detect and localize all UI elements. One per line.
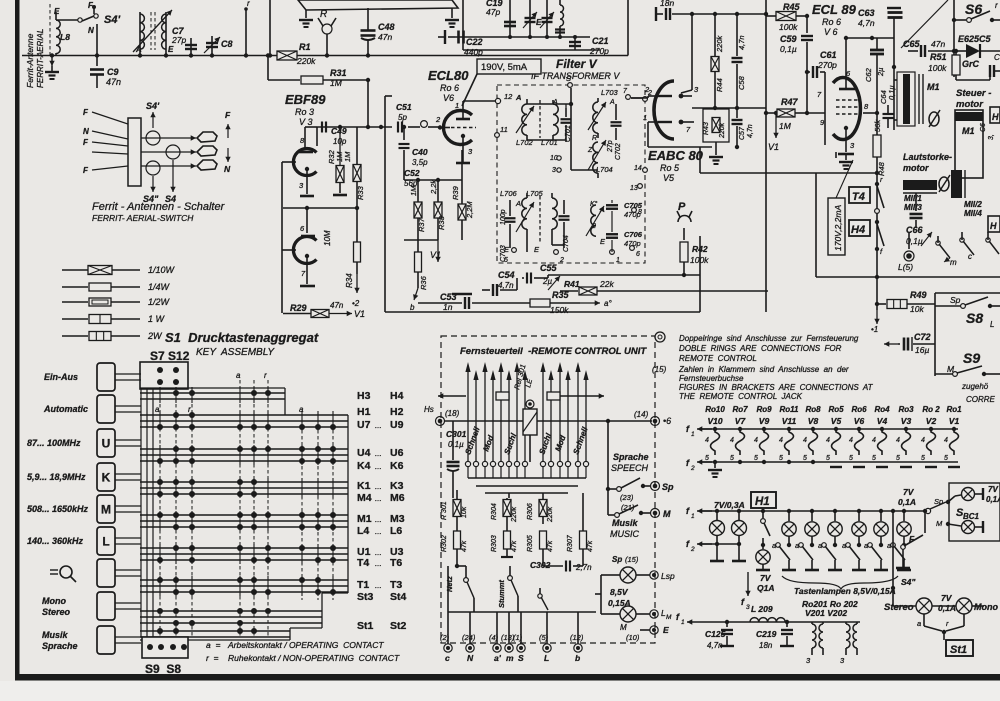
svg-text:A: A bbox=[135, 45, 142, 54]
svg-text:F: F bbox=[225, 110, 231, 120]
svg-text:IF TRANSFORMER V: IF TRANSFORMER V bbox=[531, 71, 620, 81]
contact pair Ro9 V9 bbox=[754, 405, 772, 462]
junction dots on main bus bbox=[50, 53, 54, 57]
svg-text:a =: a = bbox=[206, 640, 220, 650]
grid terminal circle bbox=[421, 121, 428, 128]
filter pin S bbox=[566, 74, 572, 87]
svg-text:T3: T3 bbox=[390, 579, 402, 591]
svg-text:Tastenlampen 8,5V/0,15A: Tastenlampen 8,5V/0,15A bbox=[794, 586, 896, 596]
svg-text:N: N bbox=[467, 653, 474, 663]
svg-text:508... 1650kHz: 508... 1650kHz bbox=[27, 504, 89, 514]
svg-text:220k: 220k bbox=[296, 56, 316, 66]
matrix dots bbox=[157, 390, 336, 634]
svg-text:MII/2: MII/2 bbox=[964, 200, 982, 209]
coil L703 bbox=[588, 88, 619, 138]
svg-text:47p: 47p bbox=[486, 7, 500, 17]
svg-text:4: 4 bbox=[705, 437, 709, 444]
capacitor C301 0.1u bbox=[446, 421, 467, 490]
svg-text:M4: M4 bbox=[357, 492, 372, 504]
resistor R29 with output V1 bbox=[283, 301, 365, 319]
svg-text:4,7n: 4,7n bbox=[858, 18, 875, 28]
svg-text:R302: R302 bbox=[441, 535, 448, 552]
svg-text:10p: 10p bbox=[333, 137, 347, 146]
svg-text:2: 2 bbox=[559, 257, 564, 264]
svg-text:N: N bbox=[88, 26, 94, 35]
svg-text:M3: M3 bbox=[390, 513, 405, 525]
svg-text:Ro3: Ro3 bbox=[898, 405, 914, 414]
svg-text:(12): (12) bbox=[570, 633, 584, 642]
svg-text:4: 4 bbox=[921, 437, 925, 444]
svg-text:1 W: 1 W bbox=[148, 314, 166, 324]
svg-text:U6: U6 bbox=[390, 447, 404, 459]
svg-text:47n: 47n bbox=[378, 32, 392, 42]
svg-text:Zahlen in Klammern sind An: Zahlen in Klammern sind Anschlusse an de… bbox=[678, 365, 849, 374]
terminal (1) S bbox=[513, 612, 525, 663]
svg-text:Fernsteuerteil -REMOTE CONTRO: Fernsteuerteil -REMOTE CONTROL UNIT bbox=[460, 346, 647, 357]
svg-text:MII/1: MII/1 bbox=[904, 194, 922, 203]
svg-text:St2: St2 bbox=[390, 620, 407, 632]
svg-text:a': a' bbox=[494, 653, 502, 663]
svg-text:R39: R39 bbox=[451, 185, 460, 200]
svg-text:a: a bbox=[236, 371, 241, 380]
label U4 U6 bbox=[357, 447, 404, 459]
boxed label H4 bbox=[849, 220, 870, 236]
svg-text:...: ... bbox=[375, 421, 382, 430]
capacitor C704 bbox=[559, 200, 571, 252]
svg-text:C125: C125 bbox=[705, 629, 726, 639]
svg-text:b: b bbox=[410, 303, 415, 312]
tube ECL80 V6 bbox=[435, 101, 495, 163]
svg-text:7V: 7V bbox=[760, 573, 772, 583]
svg-text:5: 5 bbox=[849, 455, 853, 462]
svg-text:1: 1 bbox=[643, 113, 647, 122]
F N direction indicator bbox=[224, 110, 231, 174]
svg-text:0,1µ: 0,1µ bbox=[448, 440, 464, 449]
plug symbol phi bbox=[929, 110, 940, 127]
svg-text:St3: St3 bbox=[357, 591, 374, 603]
svg-text:K3: K3 bbox=[390, 480, 404, 492]
resistor R303 47k bbox=[491, 524, 518, 557]
svg-text:ECL80: ECL80 bbox=[428, 68, 469, 83]
svg-text:L: L bbox=[990, 320, 994, 329]
svg-text:150k: 150k bbox=[550, 305, 569, 315]
resistor R306 220k bbox=[527, 498, 554, 524]
svg-text:M: M bbox=[101, 503, 111, 517]
ferrite rod antenna L8 bbox=[50, 4, 60, 58]
svg-text:L(5): L(5) bbox=[898, 262, 913, 272]
coil L701 bbox=[541, 99, 558, 147]
svg-text:47n: 47n bbox=[931, 39, 945, 49]
switch contact circles bbox=[146, 131, 180, 175]
contact pair Ro10 V10 bbox=[705, 405, 725, 462]
capacitor C703 100p bbox=[500, 200, 516, 262]
resistor R35 150k bbox=[530, 290, 612, 315]
svg-text:MII/4: MII/4 bbox=[964, 209, 982, 218]
svg-text:Arbeitskontakt / OPERATING CO: Arbeitskontakt / OPERATING CONTACT bbox=[227, 640, 384, 650]
svg-text:L: L bbox=[544, 653, 549, 663]
button 508... 1650kHz bbox=[27, 495, 141, 523]
svg-text:Netz: Netz bbox=[445, 576, 454, 592]
resistor R301 10k bbox=[441, 490, 468, 524]
switch S6 bbox=[954, 1, 1000, 22]
matrix line group y=415 bbox=[140, 415, 348, 427]
svg-text:S4': S4' bbox=[104, 14, 120, 26]
svg-text:FERRIT-AERIAL: FERRIT-AERIAL bbox=[36, 29, 45, 88]
svg-text:5: 5 bbox=[730, 455, 734, 462]
switch S9 bbox=[935, 350, 1000, 376]
capacitor C48 47n bbox=[361, 8, 395, 56]
svg-text:r =: r = bbox=[206, 653, 219, 663]
svg-text:K6: K6 bbox=[390, 460, 404, 472]
label 7V 0.1A sbc bbox=[986, 485, 1000, 504]
push lamp 5 bbox=[864, 509, 888, 570]
svg-text:10k: 10k bbox=[461, 506, 468, 518]
svg-text:R303: R303 bbox=[491, 535, 498, 552]
svg-text:Sprache: Sprache bbox=[613, 452, 649, 462]
tube EABC80 V5 bbox=[643, 81, 699, 139]
svg-text:Doppelringe sind Anschlusse: Doppelringe sind Anschlusse zur Fernsteu… bbox=[679, 334, 859, 343]
stereo contacts a r bbox=[917, 614, 964, 640]
wire vertical x=877 switch chain bbox=[875, 171, 879, 310]
svg-text:c: c bbox=[968, 252, 972, 261]
svg-text:C58: C58 bbox=[737, 75, 746, 90]
tube EBF89 lower triode bbox=[282, 208, 317, 286]
svg-text:T4: T4 bbox=[357, 557, 369, 569]
svg-text:R36: R36 bbox=[419, 275, 428, 290]
svg-text:Z: Z bbox=[587, 147, 593, 154]
svg-text:4: 4 bbox=[826, 437, 830, 444]
svg-text:L 209: L 209 bbox=[751, 604, 773, 614]
legend 2W resistor bbox=[62, 331, 163, 341]
matrix line group y=393 bbox=[140, 393, 285, 399]
capacitor C54 4.7n bbox=[482, 270, 517, 296]
svg-text:220k: 220k bbox=[715, 34, 724, 53]
switch H4 contact bbox=[875, 220, 884, 256]
svg-text:•6: •6 bbox=[663, 416, 671, 426]
svg-text:C59: C59 bbox=[780, 34, 797, 44]
svg-text:4,7n: 4,7n bbox=[707, 641, 723, 650]
terminal (24) N bbox=[462, 612, 476, 663]
svg-text:T4: T4 bbox=[852, 191, 865, 203]
button 140... 360kHz bbox=[27, 527, 141, 555]
wire vertical x=954 bbox=[952, 0, 956, 77]
svg-text:S: S bbox=[518, 653, 524, 663]
wire vertical x=893 down to stereo bbox=[891, 509, 895, 606]
svg-text:c: c bbox=[445, 653, 450, 663]
boxed label T4 bbox=[849, 187, 870, 203]
button Musik|Sprache bbox=[42, 626, 141, 654]
svg-text:H: H bbox=[992, 112, 999, 122]
label H3 H4 bbox=[357, 390, 404, 402]
wire grid row y=208 bbox=[282, 162, 359, 313]
svg-text:C704: C704 bbox=[563, 235, 570, 252]
coil with E bbox=[536, 0, 565, 37]
contact pair Ro8 V8 bbox=[803, 405, 821, 462]
label U1 U3 bbox=[357, 546, 404, 558]
resistor R34 10M bbox=[323, 208, 361, 308]
collector wires bbox=[453, 478, 586, 498]
filter pins 7 2 top right bbox=[623, 88, 652, 101]
svg-text:S7 S12: S7 S12 bbox=[150, 349, 190, 363]
remote verticals with arrows bbox=[465, 362, 588, 462]
capacitor C219 18n bbox=[756, 620, 794, 650]
matrix line group y=449 bbox=[140, 449, 348, 461]
svg-text:6: 6 bbox=[636, 251, 640, 258]
wire EABC pin1 row bbox=[648, 122, 712, 147]
resistor R36 bbox=[404, 240, 438, 312]
trimmer capacitor right bbox=[540, 0, 554, 37]
diode E625C5 bbox=[954, 34, 1000, 69]
svg-text:Ro10: Ro10 bbox=[705, 405, 725, 414]
svg-text:Sprache: Sprache bbox=[42, 641, 78, 651]
svg-text:C61: C61 bbox=[820, 50, 837, 60]
contact F S4 quote bbox=[896, 509, 927, 587]
svg-text:5: 5 bbox=[872, 455, 876, 462]
svg-text:(15): (15) bbox=[625, 555, 639, 564]
svg-text:Ro8: Ro8 bbox=[805, 405, 821, 414]
button Mono|Stereo bbox=[42, 592, 141, 620]
boxed H right edge bbox=[990, 107, 1000, 123]
coil tertiary K bbox=[586, 200, 606, 246]
filter pin 12 bbox=[495, 92, 513, 104]
junction row y=108 bbox=[692, 106, 766, 110]
svg-text:10k: 10k bbox=[910, 304, 924, 314]
svg-text:BC1: BC1 bbox=[963, 512, 980, 521]
svg-text:GrC: GrC bbox=[962, 59, 980, 69]
resistor R49 10k bbox=[877, 290, 935, 314]
svg-text:K: K bbox=[102, 471, 111, 485]
wire f1 row2 bbox=[686, 506, 931, 520]
label St1 St2 bbox=[357, 620, 407, 632]
svg-text:N: N bbox=[224, 164, 231, 174]
wire stub r bbox=[244, 0, 250, 55]
svg-text:Sp: Sp bbox=[612, 555, 622, 564]
svg-text:V5: V5 bbox=[663, 173, 675, 183]
capacitor C302 2.7n bbox=[530, 560, 592, 572]
svg-text:V 6: V 6 bbox=[824, 27, 838, 37]
svg-text:R307: R307 bbox=[567, 534, 574, 552]
button Automatic bbox=[43, 395, 141, 423]
svg-text:Mono: Mono bbox=[974, 602, 998, 612]
bottom contact small bbox=[538, 588, 548, 610]
coil L705 bbox=[526, 189, 557, 254]
contact pair Ro 2 V2 bbox=[921, 405, 940, 467]
svg-text:R51: R51 bbox=[930, 52, 947, 62]
svg-text:Ein-Aus: Ein-Aus bbox=[44, 372, 78, 382]
svg-text:...: ... bbox=[375, 581, 382, 590]
boxed label St1 bbox=[946, 640, 973, 656]
main wire through remote unit bbox=[444, 419, 652, 423]
svg-text:Ro11: Ro11 bbox=[780, 405, 800, 414]
brace Tastenlampen bbox=[782, 576, 898, 596]
svg-text:1: 1 bbox=[455, 101, 459, 110]
svg-text:V7: V7 bbox=[735, 416, 747, 426]
svg-text:r: r bbox=[995, 1, 998, 10]
svg-text:2µ: 2µ bbox=[542, 277, 552, 286]
svg-text:4: 4 bbox=[803, 437, 807, 444]
svg-text:M1: M1 bbox=[927, 82, 940, 92]
svg-text:M: M bbox=[620, 623, 627, 632]
svg-text:5: 5 bbox=[944, 455, 948, 462]
svg-text:V10: V10 bbox=[707, 416, 722, 426]
terminal 18 Hs bbox=[424, 405, 460, 426]
svg-text:R45: R45 bbox=[783, 2, 801, 12]
svg-text:14: 14 bbox=[634, 165, 642, 172]
svg-text:C40: C40 bbox=[412, 147, 428, 157]
matrix vertical dashed columns bbox=[160, 380, 333, 637]
legend 1/4W resistor bbox=[62, 282, 171, 292]
motor MII/2 MII/4 winding bbox=[951, 170, 982, 218]
svg-text:1M: 1M bbox=[343, 151, 352, 162]
svg-text:C702: C702 bbox=[615, 143, 622, 160]
svg-text:T1: T1 bbox=[357, 579, 369, 591]
svg-text:11: 11 bbox=[500, 125, 508, 134]
relay Rel301 bbox=[512, 363, 537, 462]
resistor R1 220k bbox=[277, 42, 455, 66]
svg-text:A: A bbox=[515, 93, 521, 102]
svg-text:4: 4 bbox=[944, 437, 948, 444]
svg-text:C301: C301 bbox=[446, 429, 467, 439]
svg-text:C: C bbox=[994, 53, 1000, 62]
svg-text:Fernsteuerbuchse: Fernsteuerbuchse bbox=[679, 374, 744, 383]
svg-text:5: 5 bbox=[896, 455, 900, 462]
capacitor C21 270p bbox=[569, 35, 609, 56]
svg-text:47k: 47k bbox=[547, 540, 554, 552]
border frame bottom bbox=[15, 674, 1000, 681]
svg-text:K1: K1 bbox=[357, 480, 371, 492]
svg-text:1/4W: 1/4W bbox=[148, 282, 171, 292]
svg-text:V201 V202: V201 V202 bbox=[805, 608, 847, 618]
svg-text:220k: 220k bbox=[511, 506, 518, 523]
capacitor C702 27p bbox=[607, 104, 622, 160]
capacitor C22 440p bbox=[438, 30, 483, 57]
svg-text:FERRIT- AERIAL-SWITCH: FERRIT- AERIAL-SWITCH bbox=[92, 213, 194, 223]
push lamp 3 bbox=[818, 509, 842, 570]
svg-text:r: r bbox=[247, 0, 250, 8]
svg-text:100k: 100k bbox=[779, 22, 798, 32]
svg-text:a°: a° bbox=[604, 299, 612, 308]
svg-text:R29: R29 bbox=[290, 303, 307, 313]
svg-text:5,9... 18,9MHz: 5,9... 18,9MHz bbox=[27, 472, 86, 482]
svg-text:motor: motor bbox=[956, 99, 984, 110]
block S7 S12 bbox=[140, 362, 188, 389]
switch S8 bbox=[935, 295, 1000, 329]
svg-text:R31: R31 bbox=[330, 68, 347, 78]
svg-text:m: m bbox=[506, 653, 514, 663]
svg-text:L705: L705 bbox=[526, 189, 544, 198]
contact pair Ro11 V11 bbox=[779, 405, 799, 462]
svg-text:2: 2 bbox=[690, 465, 695, 472]
wire f2 row2 bbox=[686, 539, 739, 553]
lamp SBC1 top bbox=[948, 488, 983, 503]
label Ro 6 V6 ecl89 bbox=[822, 17, 841, 37]
svg-text:Q1A: Q1A bbox=[757, 583, 774, 593]
svg-text:E: E bbox=[663, 625, 669, 635]
svg-text:REMOTE CONTROL: REMOTE CONTROL bbox=[679, 354, 757, 363]
core dash L706 L705 bbox=[539, 196, 541, 244]
svg-text:E: E bbox=[168, 45, 174, 54]
svg-text:V3: V3 bbox=[901, 416, 912, 426]
matrix line group y=631 bbox=[140, 631, 290, 637]
svg-text:m: m bbox=[950, 258, 957, 267]
label St3 St4 bbox=[357, 591, 407, 603]
svg-text:V8: V8 bbox=[808, 416, 819, 426]
label Ro201 Ro202 V201 V202 bbox=[802, 599, 858, 618]
border frame left bbox=[15, 0, 20, 680]
tuning gang box outline bbox=[455, 0, 628, 56]
lamp La1 bbox=[710, 509, 725, 561]
svg-text:Ro 6: Ro 6 bbox=[440, 83, 459, 93]
capacitor C7 27p bbox=[171, 26, 197, 55]
svg-text:Ro 2: Ro 2 bbox=[922, 405, 940, 414]
matrix line group y=482 bbox=[140, 482, 348, 494]
svg-text:8,5V: 8,5V bbox=[610, 587, 629, 597]
wire f1 row1 bbox=[686, 424, 958, 438]
svg-text:N: N bbox=[83, 127, 89, 136]
block S9 S8 bbox=[142, 637, 188, 658]
stage box outline bbox=[385, 96, 700, 312]
svg-text:FIGURES IN BRACKETS ARE CO: FIGURES IN BRACKETS ARE CONNECTIONS AT bbox=[679, 383, 874, 392]
labels S4'' S4 below with arrows bbox=[143, 160, 176, 204]
svg-text:C63: C63 bbox=[858, 8, 875, 18]
svg-text:Ro1: Ro1 bbox=[946, 405, 962, 414]
terminal P bbox=[677, 201, 692, 240]
svg-text:R44: R44 bbox=[715, 78, 724, 92]
svg-text:1/10W: 1/10W bbox=[148, 265, 176, 275]
svg-text:2,7n: 2,7n bbox=[575, 563, 592, 572]
tube ECL89 V6 bbox=[807, 38, 877, 160]
svg-text:140... 360kHz: 140... 360kHz bbox=[27, 536, 84, 546]
svg-text:4: 4 bbox=[849, 437, 853, 444]
svg-text:C21: C21 bbox=[592, 36, 609, 46]
terminal (12) b bbox=[570, 612, 584, 663]
svg-text:16µ: 16µ bbox=[915, 345, 929, 355]
svg-text:C62: C62 bbox=[864, 67, 873, 82]
svg-text:5: 5 bbox=[826, 455, 830, 462]
svg-text:100k: 100k bbox=[928, 63, 947, 73]
svg-text:3,5p: 3,5p bbox=[412, 158, 428, 167]
svg-text:M: M bbox=[666, 614, 672, 621]
svg-text:M1: M1 bbox=[357, 513, 372, 525]
svg-text:M: M bbox=[663, 509, 671, 519]
svg-text:S9 S8: S9 S8 bbox=[145, 662, 181, 676]
svg-text:(15): (15) bbox=[652, 365, 667, 374]
svg-text:S9: S9 bbox=[963, 350, 980, 366]
svg-text:4,7n: 4,7n bbox=[747, 124, 754, 138]
svg-text:C9: C9 bbox=[107, 67, 119, 77]
svg-text:7V: 7V bbox=[988, 485, 998, 494]
matrix line group y=548 bbox=[140, 548, 348, 560]
wire vertical x=766 bbox=[764, 0, 768, 312]
svg-text:R305: R305 bbox=[527, 535, 534, 552]
svg-text:C54: C54 bbox=[498, 270, 515, 280]
svg-text:(24): (24) bbox=[462, 633, 476, 642]
resistor R48 56k bbox=[873, 113, 886, 176]
resistor R41 22k bbox=[560, 279, 768, 295]
svg-text:H3: H3 bbox=[357, 390, 371, 402]
switch output arrows with plugs bbox=[141, 132, 217, 170]
svg-text:Lsp: Lsp bbox=[661, 571, 675, 581]
svg-text:Stereo: Stereo bbox=[42, 607, 71, 617]
label K4 K6 bbox=[357, 460, 404, 472]
svg-text:T6: T6 bbox=[390, 557, 402, 569]
wire from bus down to R31 bbox=[266, 53, 300, 80]
coil L702 bbox=[515, 93, 534, 147]
capacitor C63 4.7n bbox=[858, 8, 903, 38]
resistor R32 1M bbox=[327, 125, 347, 195]
svg-text:Ro4: Ro4 bbox=[874, 405, 890, 414]
plug symbol phi 2 bbox=[939, 175, 950, 192]
